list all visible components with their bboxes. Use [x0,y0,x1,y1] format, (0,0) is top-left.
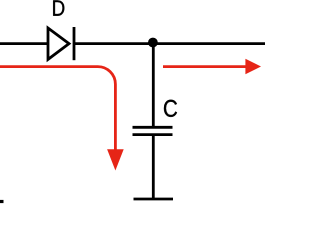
wire: left input to diode anode [0,42,48,45]
wire: capacitor bottom plate down to bottom rail [152,135,155,199]
wire: junction down to capacitor top plate [152,44,155,128]
bottom rail bar under capacitor [134,198,174,201]
red output current arrowhead (right) [245,59,261,74]
red current arrowhead (down) [107,149,124,170]
diode D cathode bar [73,27,76,60]
node junction dot [148,38,158,48]
label C [164,100,177,117]
wire: diode cathode to right output [74,42,265,45]
red current path: left in, curving down (wire) [0,67,115,152]
red output current arrow shaft [163,65,246,68]
bottom rail stub at left edge [0,200,4,203]
label D [53,0,64,15]
capacitor C top plate [133,126,173,129]
capacitor C bottom plate [133,133,173,136]
diode D (triangle anode) [48,28,69,59]
